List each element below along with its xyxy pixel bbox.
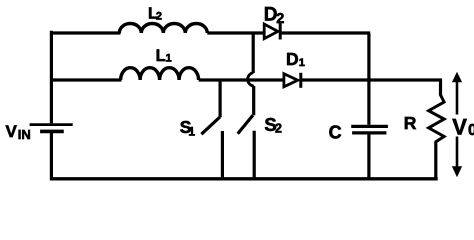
- arrow V0 up: [452, 72, 462, 115]
- wire S1 lower lead: [221, 131, 224, 180]
- wire S2 lower lead: [253, 131, 256, 180]
- svg-text:1: 1: [166, 53, 172, 65]
- battery VIN positive plate: [30, 123, 73, 126]
- wire S2 upper lead: [252, 86, 255, 115]
- svg-text:2: 2: [156, 10, 162, 22]
- svg-text:0: 0: [468, 122, 474, 139]
- wire R upper lead: [439, 78, 442, 95]
- svg-text:1: 1: [188, 124, 195, 138]
- svg-text:1: 1: [299, 57, 305, 69]
- wire middle rail D1 cathode to R corner: [302, 78, 441, 81]
- wire top rail left (Vin+ to L2): [50, 31, 121, 34]
- diode D2: [264, 23, 280, 40]
- wire R lower lead: [434, 142, 437, 181]
- inductor L2: [119, 24, 207, 34]
- wire bottom rail: [50, 177, 438, 180]
- svg-text:IN: IN: [18, 127, 31, 142]
- wire S1 upper lead from middle rail: [219, 80, 222, 117]
- battery VIN negative plate: [40, 130, 64, 134]
- svg-text:R: R: [404, 113, 417, 133]
- wire top rail D2 cathode to output corner: [281, 31, 370, 34]
- svg-text:C: C: [329, 122, 342, 142]
- wire top rail L2 to D2 anode: [207, 31, 264, 34]
- node S2 tap on top rail: [252, 33, 255, 73]
- svg-text:D: D: [286, 49, 299, 69]
- wire output vertical (top rail down to capacitor): [367, 33, 370, 125]
- wire middle rail L1 to D1 anode: [199, 78, 284, 81]
- svg-text:2: 2: [276, 11, 284, 27]
- svg-text:V: V: [6, 122, 18, 141]
- wire capacitor lower lead: [367, 134, 370, 180]
- svg-text:L: L: [156, 47, 166, 65]
- wire left vertical Vin-: [50, 133, 53, 181]
- switch S1 blade: [201, 117, 220, 134]
- capacitor C bottom plate: [352, 131, 386, 134]
- switch S2 blade: [238, 115, 253, 134]
- wire left vertical Vin+: [50, 31, 53, 124]
- capacitor C top plate: [351, 125, 388, 128]
- wire middle rail left (Vin+ to L1): [50, 78, 122, 81]
- wire hop (S2 wire crosses middle rail, no connection): [248, 73, 254, 87]
- inductor L1: [121, 68, 199, 80]
- diode D1: [284, 73, 301, 88]
- svg-text:2: 2: [275, 122, 282, 136]
- svg-text:V: V: [452, 114, 467, 139]
- resistor R zigzag: [429, 95, 445, 142]
- arrow V0 down: [452, 137, 462, 178]
